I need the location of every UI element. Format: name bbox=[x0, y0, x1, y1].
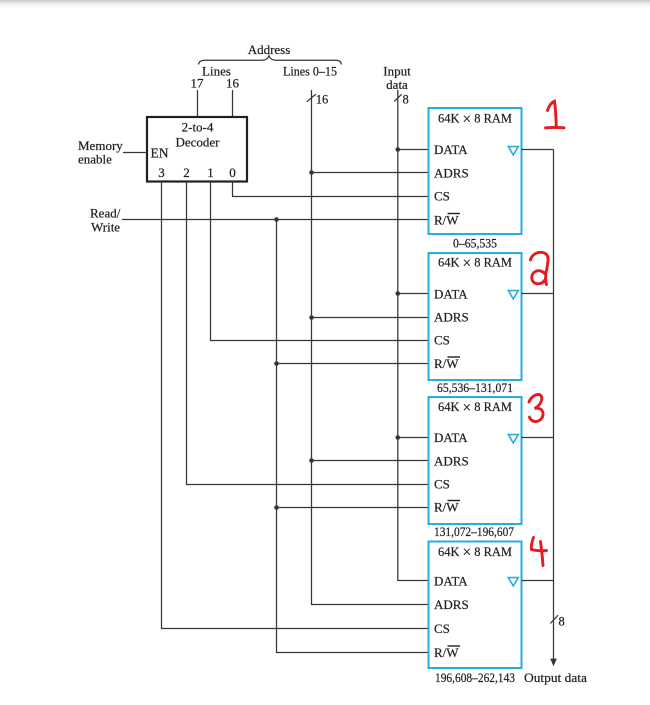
data output triangle RAM1 bbox=[508, 147, 518, 155]
wire read/write main to RAM1 RW bbox=[122, 219, 429, 221]
svg-text:R/W: R/W bbox=[434, 213, 459, 228]
wire read/write vertical branch (elbow to RAM4 RW) bbox=[277, 220, 429, 653]
svg-text:64K × 8 RAM: 64K × 8 RAM bbox=[438, 399, 512, 416]
wire decoder output 2 to RAM3 CS bbox=[187, 182, 429, 485]
svg-text:R/W: R/W bbox=[434, 356, 459, 371]
wire RAM2 data out bbox=[522, 293, 554, 295]
brace over address lines bbox=[199, 56, 342, 65]
bus width slash 8 on input data bus bbox=[394, 93, 409, 107]
svg-text:16: 16 bbox=[226, 76, 240, 91]
junction data RAM3 bbox=[396, 435, 401, 440]
junction read/write RAM3 bbox=[274, 505, 279, 510]
annotation red 4 bbox=[531, 538, 546, 566]
RAM 2 (64K x 8) bbox=[429, 253, 522, 380]
wire output data bus vertical bbox=[553, 150, 555, 661]
svg-text:64K × 8 RAM: 64K × 8 RAM bbox=[438, 544, 512, 561]
RAM 3 (64K x 8) bbox=[429, 397, 522, 524]
label Memory enable bbox=[78, 138, 123, 167]
svg-text:1: 1 bbox=[207, 165, 214, 180]
arrowhead output data bbox=[550, 659, 557, 667]
wire data branch to RAM2 DATA bbox=[398, 293, 429, 295]
svg-text:CS: CS bbox=[434, 333, 450, 348]
svg-text:ADRS: ADRS bbox=[434, 454, 469, 469]
svg-text:R/W: R/W bbox=[434, 500, 459, 515]
wire address line 17 into decoder bbox=[197, 90, 199, 117]
junction read/write RAM2 bbox=[274, 361, 279, 366]
svg-text:8: 8 bbox=[403, 93, 409, 107]
wire addr branch to RAM1 ADRS bbox=[312, 172, 429, 174]
annotation red 2 bbox=[531, 252, 549, 284]
junction read/write branch bbox=[274, 217, 279, 222]
svg-text:Read/: Read/ bbox=[90, 206, 121, 221]
svg-text:data: data bbox=[386, 77, 408, 92]
svg-text:0: 0 bbox=[229, 165, 236, 180]
wire data branch to RAM1 DATA bbox=[398, 149, 429, 151]
junction addr RAM1 bbox=[309, 170, 314, 175]
wire input data bus (vertical, elbow to RAM4 DATA) bbox=[398, 90, 429, 581]
junction addr RAM3 bbox=[309, 458, 314, 463]
wire addr branch to RAM2 ADRS bbox=[312, 317, 429, 319]
wire decoder output 0 to RAM1 CS bbox=[233, 182, 429, 197]
wire decoder output 3 to RAM4 CS bbox=[162, 182, 429, 629]
svg-text:Lines 0–15: Lines 0–15 bbox=[283, 64, 337, 79]
svg-text:DATA: DATA bbox=[434, 287, 468, 302]
wire memory enable to EN bbox=[123, 152, 147, 154]
svg-text:17: 17 bbox=[191, 76, 205, 91]
wire RAM3 data out bbox=[522, 437, 554, 439]
wire read/write to RAM3 RW bbox=[277, 507, 429, 509]
svg-text:65,536–131,071: 65,536–131,071 bbox=[437, 380, 513, 395]
wire read/write to RAM2 RW bbox=[277, 363, 429, 365]
wire RAM1 data out to output bus bbox=[522, 149, 554, 151]
wire address line 16 into decoder bbox=[232, 90, 234, 117]
svg-text:Decoder: Decoder bbox=[175, 135, 220, 150]
label Input data bbox=[383, 64, 411, 93]
data output triangle RAM4 bbox=[508, 578, 518, 586]
svg-text:ADRS: ADRS bbox=[434, 166, 469, 181]
wire RAM4 data out bbox=[522, 580, 554, 582]
svg-text:131,072–196,607: 131,072–196,607 bbox=[434, 524, 514, 539]
svg-text:CS: CS bbox=[434, 477, 450, 492]
svg-text:Write: Write bbox=[91, 220, 120, 235]
svg-text:8: 8 bbox=[559, 615, 565, 629]
RAM 1 (64K x 8) bbox=[429, 108, 522, 234]
svg-text:R/W: R/W bbox=[434, 645, 459, 660]
wire decoder output 1 to RAM2 CS bbox=[211, 182, 429, 341]
svg-text:0–65,535: 0–65,535 bbox=[453, 236, 497, 251]
junction data RAM1 bbox=[396, 147, 401, 152]
svg-text:DATA: DATA bbox=[434, 142, 468, 157]
svg-text:2: 2 bbox=[183, 165, 190, 180]
svg-text:DATA: DATA bbox=[434, 430, 468, 445]
annotation red 3 bbox=[529, 394, 543, 421]
wire addr branch to RAM3 ADRS bbox=[312, 460, 429, 462]
svg-text:64K × 8 RAM: 64K × 8 RAM bbox=[438, 255, 512, 272]
svg-text:DATA: DATA bbox=[434, 574, 468, 589]
label Read/Write bbox=[90, 206, 121, 235]
RAM 4 (64K x 8) bbox=[429, 542, 522, 669]
svg-text:EN: EN bbox=[151, 146, 169, 161]
svg-text:enable: enable bbox=[78, 152, 112, 167]
data output triangle RAM3 bbox=[508, 435, 518, 443]
svg-text:ADRS: ADRS bbox=[434, 310, 469, 325]
svg-text:Output data: Output data bbox=[524, 670, 587, 685]
junction addr RAM2 bbox=[309, 315, 314, 320]
2-to-4 decoder bbox=[147, 117, 247, 182]
junction data RAM2 bbox=[396, 291, 401, 296]
svg-text:196,608–262,143: 196,608–262,143 bbox=[435, 670, 515, 685]
bus width slash 8 on output bus bbox=[550, 615, 564, 629]
svg-text:2-to-4: 2-to-4 bbox=[182, 120, 214, 135]
wire data branch to RAM3 DATA bbox=[398, 437, 429, 439]
data output triangle RAM2 bbox=[508, 291, 518, 299]
bus width slash 16 on address bus bbox=[307, 93, 329, 107]
svg-text:64K × 8 RAM: 64K × 8 RAM bbox=[438, 111, 512, 128]
svg-text:CS: CS bbox=[434, 189, 450, 204]
svg-text:16: 16 bbox=[316, 93, 329, 107]
svg-text:CS: CS bbox=[434, 621, 450, 636]
annotation red 1 bbox=[546, 101, 565, 128]
svg-text:3: 3 bbox=[158, 165, 165, 180]
svg-text:ADRS: ADRS bbox=[434, 597, 469, 612]
wire address bus lines 0-15 (vertical, elbow to RAM4 ADRS) bbox=[312, 90, 429, 605]
